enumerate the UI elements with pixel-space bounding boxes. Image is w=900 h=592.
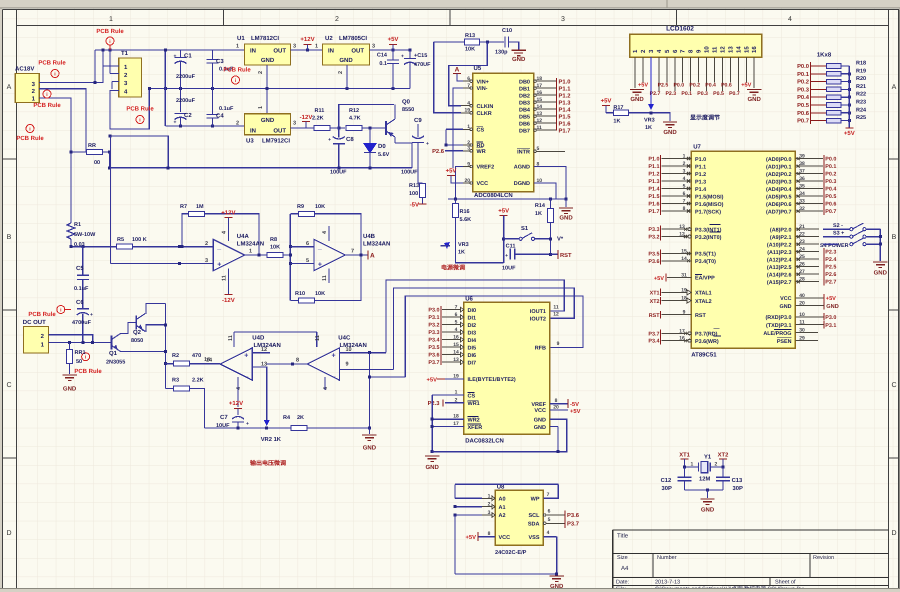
resistor R1 5W-10W — [67, 98, 96, 248]
wires LCD pins down — [635, 57, 754, 104]
svg-text:U7: U7 — [693, 144, 701, 151]
svg-text:16: 16 — [453, 335, 459, 341]
label power adjust chinese — [441, 264, 465, 272]
svg-text:4: 4 — [455, 327, 458, 333]
svg-text:Revision: Revision — [813, 555, 834, 561]
svg-text:19: 19 — [681, 287, 687, 293]
svg-text:22: 22 — [799, 232, 805, 238]
capacitor C4 — [206, 89, 234, 127]
wires U7 left P3 group3 — [648, 248, 691, 264]
IC LCD1602 — [630, 26, 762, 58]
svg-text:P3.6: P3.6 — [428, 353, 439, 359]
svg-text:P2.3: P2.3 — [825, 250, 836, 256]
svg-text:17: 17 — [679, 328, 685, 334]
svg-text:100 K: 100 K — [132, 237, 147, 243]
svg-text:C7: C7 — [220, 414, 228, 421]
ground at VR2 row — [362, 428, 377, 452]
svg-text:P1.5: P1.5 — [559, 114, 572, 120]
svg-text:DC OUT: DC OUT — [23, 319, 46, 326]
capacitor C14 — [377, 50, 399, 89]
svg-text:ALE/PROG: ALE/PROG — [763, 331, 791, 337]
svg-text:OUT: OUT — [351, 48, 364, 55]
svg-text:4.7K: 4.7K — [349, 116, 361, 122]
svg-text:DI6: DI6 — [468, 353, 477, 359]
svg-text:11: 11 — [228, 335, 234, 341]
PCB Rule marker left lower — [16, 125, 44, 143]
svg-text:P3.3(INT1): P3.3(INT1) — [695, 227, 722, 233]
wire left vertical x110 — [110, 136, 112, 263]
wire mid 0V rail — [148, 87, 410, 90]
wire Q1 collector to Q2 base — [121, 323, 137, 334]
ground C10 — [512, 50, 527, 63]
capacitor C8 — [328, 128, 354, 176]
power port +5V at ADC VCC — [446, 168, 463, 184]
svg-text:P2.5: P2.5 — [658, 83, 669, 89]
svg-text:4: 4 — [788, 16, 792, 23]
svg-text:IOUT1: IOUT1 — [530, 309, 546, 315]
net label -5V at VREF — [550, 398, 579, 408]
svg-text:24C02C-E/P: 24C02C-E/P — [495, 549, 527, 556]
svg-text:(AD6)P0.6: (AD6)P0.6 — [766, 202, 791, 208]
net label RST left of U7 — [649, 310, 692, 319]
svg-text:Number: Number — [657, 555, 677, 561]
svg-text:2.2K: 2.2K — [312, 116, 324, 122]
svg-text:6: 6 — [548, 509, 551, 515]
net labels P1.0-P1.7 left of U7 — [648, 155, 660, 215]
svg-text:P2.6: P2.6 — [825, 272, 836, 278]
svg-text:2: 2 — [683, 161, 686, 167]
svg-text:P1.7: P1.7 — [559, 128, 571, 134]
svg-text:P3.5: P3.5 — [648, 251, 659, 257]
svg-text:GND: GND — [339, 57, 353, 64]
svg-text:5.6K: 5.6K — [460, 217, 472, 223]
svg-text:P3.4: P3.4 — [648, 339, 659, 345]
wire U4D pin13 to VR2 — [252, 367, 266, 420]
svg-text:R2: R2 — [172, 353, 179, 359]
svg-text:5: 5 — [683, 184, 686, 190]
wire U4A output — [245, 254, 267, 257]
svg-text:+: + — [505, 253, 508, 259]
svg-text:P2.5: P2.5 — [825, 265, 836, 271]
svg-text:-12V: -12V — [300, 114, 313, 121]
svg-text:(AD3)P0.3: (AD3)P0.3 — [766, 179, 791, 185]
svg-text:PCB Rule: PCB Rule — [16, 135, 44, 142]
svg-text:LM324AN: LM324AN — [254, 342, 281, 349]
svg-text:10K: 10K — [465, 47, 475, 53]
svg-text:PCB Rule: PCB Rule — [28, 311, 56, 318]
svg-text:7: 7 — [351, 249, 354, 255]
resistor R10 10K — [290, 255, 361, 303]
svg-text:P0.6: P0.6 — [721, 83, 732, 89]
svg-text:VR2 1K: VR2 1K — [261, 436, 282, 443]
svg-text:R20: R20 — [856, 76, 866, 82]
svg-text:P1.4: P1.4 — [559, 107, 572, 113]
svg-text:P2.3: P2.3 — [428, 400, 441, 407]
svg-text:8: 8 — [296, 358, 299, 364]
svg-text:+: + — [328, 137, 331, 143]
net label P2.6 at WR — [432, 148, 463, 155]
svg-text:VSS: VSS — [528, 535, 539, 541]
svg-text:P2.7: P2.7 — [825, 280, 836, 286]
svg-text:A: A — [7, 84, 12, 91]
svg-text:P1.7: P1.7 — [648, 209, 659, 215]
connector DC OUT — [23, 319, 49, 353]
ground LCD contrast — [663, 122, 678, 136]
svg-text:VR3: VR3 — [458, 242, 469, 248]
resistor R5 100K — [117, 237, 147, 249]
svg-text:9: 9 — [557, 341, 560, 347]
net labels P0.0-P0.7 left of network — [797, 63, 810, 125]
svg-text:2: 2 — [335, 16, 339, 23]
svg-text:P2.6: P2.6 — [432, 148, 445, 155]
svg-text:U4B: U4B — [363, 233, 376, 240]
PCB Rule marker below AC18V — [33, 90, 61, 109]
power +5V at EA — [654, 273, 691, 283]
svg-text:2.2K: 2.2K — [192, 378, 204, 384]
svg-text:6: 6 — [306, 241, 309, 247]
svg-text:8550: 8550 — [402, 107, 414, 113]
svg-text:00: 00 — [94, 160, 100, 166]
transformer T1 — [119, 50, 142, 97]
svg-text:13: 13 — [453, 357, 459, 363]
wire feedback L1 IOUT1 — [386, 280, 564, 353]
svg-text:PCB Rule: PCB Rule — [223, 67, 251, 74]
wire crystal bottom — [685, 488, 723, 498]
svg-text:R9: R9 — [297, 204, 304, 210]
wire INTR stub — [534, 150, 565, 153]
svg-text:DI1: DI1 — [468, 315, 477, 321]
wire network left bus — [810, 62, 812, 124]
wires DAC DI pins — [428, 305, 463, 367]
svg-text:DI0: DI0 — [468, 308, 477, 314]
net label P3.0 — [795, 312, 836, 321]
svg-text:12: 12 — [679, 232, 685, 238]
svg-text:32: 32 — [799, 206, 805, 212]
svg-text:R17: R17 — [613, 105, 623, 111]
power port +12V top — [300, 36, 314, 50]
svg-text:C4: C4 — [216, 113, 224, 120]
resistor R7 1M — [180, 204, 259, 255]
svg-text:WR1: WR1 — [468, 401, 480, 407]
svg-text:2: 2 — [715, 462, 718, 468]
svg-text:S2 -: S2 - — [833, 223, 843, 229]
svg-text:P0.1: P0.1 — [797, 71, 810, 78]
svg-text:36: 36 — [799, 176, 805, 182]
svg-text:P2.3: P2.3 — [665, 91, 676, 97]
svg-text:D0: D0 — [378, 143, 386, 150]
svg-text:P0.1: P0.1 — [681, 91, 692, 97]
zone tick right C-D — [889, 457, 899, 459]
svg-text:3: 3 — [561, 16, 565, 23]
svg-text:P3.4: P3.4 — [428, 338, 439, 344]
power port +5V top — [388, 36, 399, 50]
zone tick top 2-3 — [449, 10, 451, 26]
svg-text:SDA: SDA — [528, 522, 540, 528]
svg-text:16: 16 — [751, 46, 758, 53]
svg-text:14: 14 — [681, 256, 687, 262]
svg-text:Title: Title — [617, 533, 629, 540]
svg-text:P1.4: P1.4 — [648, 187, 659, 193]
svg-text:P0.2: P0.2 — [797, 79, 809, 86]
svg-text:20: 20 — [553, 405, 559, 411]
svg-text:P0.7: P0.7 — [797, 118, 809, 125]
svg-text:C: C — [6, 382, 11, 389]
svg-text:+5V: +5V — [638, 83, 648, 89]
wire U2 gnd pin — [346, 65, 348, 89]
svg-text:12M: 12M — [699, 476, 710, 483]
svg-text:P3.2(INT0): P3.2(INT0) — [695, 235, 722, 241]
svg-text:P1.1: P1.1 — [695, 164, 706, 170]
svg-text:470UF: 470UF — [414, 62, 431, 68]
svg-text:-12V: -12V — [222, 297, 235, 304]
svg-text:P0.3: P0.3 — [697, 91, 708, 97]
svg-text:C10: C10 — [502, 28, 512, 34]
svg-text:DI2: DI2 — [468, 323, 477, 329]
svg-text:5: 5 — [306, 258, 309, 264]
svg-text:37: 37 — [799, 169, 805, 175]
svg-text:11: 11 — [222, 275, 228, 281]
svg-text:R10: R10 — [295, 291, 305, 297]
capacitor C12 30P — [661, 467, 692, 492]
svg-text:C1: C1 — [184, 53, 192, 60]
svg-text:3: 3 — [488, 510, 491, 516]
svg-text:OUT: OUT — [273, 128, 286, 135]
wire U4B plus input — [290, 262, 314, 264]
svg-text:P1.1: P1.1 — [648, 164, 659, 170]
svg-text:显示度调节: 显示度调节 — [690, 114, 720, 122]
svg-text:25: 25 — [799, 254, 805, 260]
svg-text:U3: U3 — [246, 138, 254, 145]
svg-text:GND: GND — [261, 57, 275, 64]
wire top +rail y50 — [94, 49, 245, 84]
svg-text:P1.5(MOSI): P1.5(MOSI) — [695, 194, 724, 200]
svg-text:R25: R25 — [856, 115, 866, 121]
resistor R17 1K — [613, 105, 628, 125]
svg-text:Sheet of: Sheet of — [775, 580, 796, 586]
svg-text:R12: R12 — [349, 108, 359, 114]
svg-text:11: 11 — [322, 275, 328, 281]
svg-text:CLKIN: CLKIN — [477, 104, 494, 110]
svg-text:GND: GND — [701, 507, 715, 514]
capacitor C1 — [174, 50, 196, 89]
svg-text:P0.2: P0.2 — [825, 172, 836, 178]
svg-text:ADC0804LCN: ADC0804LCN — [474, 192, 513, 199]
svg-text:INTR: INTR — [517, 150, 530, 156]
sheet inner border top line — [17, 25, 889, 27]
PCB Rule marker near C3 — [223, 67, 251, 85]
svg-text:C2: C2 — [184, 112, 192, 119]
svg-text:VIN-: VIN- — [477, 86, 488, 92]
svg-text:+5V: +5V — [826, 296, 836, 302]
svg-text:R8: R8 — [270, 237, 277, 243]
capacitor C7 — [216, 414, 249, 429]
svg-text:DB6: DB6 — [519, 121, 530, 127]
wires U7 right P2 pins with numbers — [795, 224, 819, 283]
svg-text:11: 11 — [553, 305, 559, 311]
svg-text:Size: Size — [617, 555, 628, 561]
svg-text:VCC: VCC — [499, 535, 511, 541]
svg-text:1: 1 — [315, 44, 318, 50]
wire R13 left down to CLKR — [434, 42, 461, 113]
svg-text:DI3: DI3 — [468, 330, 477, 336]
svg-text:_: _ — [243, 371, 248, 378]
svg-text:PSEN: PSEN — [777, 339, 792, 345]
svg-text:7: 7 — [455, 305, 458, 311]
resistors R18-R25 — [811, 61, 868, 123]
svg-text:2200uF: 2200uF — [176, 98, 196, 104]
svg-text:3: 3 — [293, 121, 296, 127]
svg-text:1: 1 — [236, 44, 239, 50]
svg-text:S1: S1 — [521, 225, 529, 232]
svg-text:_: _ — [317, 244, 322, 251]
svg-text:P0.2: P0.2 — [689, 83, 700, 89]
svg-text:27: 27 — [799, 269, 805, 275]
svg-text:P3.1: P3.1 — [825, 323, 836, 329]
wires U7 left P3 group5 — [648, 328, 691, 344]
svg-text:P3.0: P3.0 — [825, 315, 836, 321]
wire R13 junction to CLKIN — [449, 42, 488, 106]
svg-text:RR: RR — [88, 143, 96, 149]
wire DAC IOUT pin numbers — [553, 305, 559, 347]
svg-text:100UF: 100UF — [330, 170, 347, 176]
op-amp U4A LM324AN — [205, 230, 264, 281]
svg-text:A2: A2 — [499, 513, 506, 519]
svg-text:OUT: OUT — [273, 48, 286, 55]
svg-text:PCB Rule: PCB Rule — [38, 60, 66, 67]
wire PSEN stub — [795, 336, 818, 342]
wire R11 junction up to top — [339, 105, 394, 129]
svg-text:R24: R24 — [856, 107, 867, 113]
svg-text:+: + — [246, 421, 249, 427]
wire Q2 emitter — [145, 325, 165, 332]
svg-text:P1.6(MISO): P1.6(MISO) — [695, 202, 724, 208]
svg-text:19: 19 — [453, 374, 459, 380]
ground DAC — [425, 456, 440, 471]
svg-text:-5V: -5V — [570, 402, 579, 408]
label output adjust chinese — [250, 459, 286, 467]
svg-text:A: A — [892, 84, 897, 91]
svg-text:30P: 30P — [733, 485, 743, 492]
svg-text:R11: R11 — [315, 108, 325, 114]
svg-text:VCC: VCC — [534, 408, 546, 414]
power port -5V under R13 — [410, 198, 427, 209]
svg-text:15: 15 — [743, 46, 750, 53]
svg-text:+: + — [90, 312, 93, 318]
svg-text:P3.1: P3.1 — [428, 315, 439, 321]
svg-text:1: 1 — [488, 493, 491, 499]
wire R12 to Q0 base — [362, 127, 386, 130]
svg-text:(AD1)P0.1: (AD1)P0.1 — [766, 164, 791, 170]
power port +5V at R17 — [601, 98, 614, 113]
svg-text:17: 17 — [453, 421, 459, 427]
ground 24C02 — [550, 576, 565, 590]
svg-text:10K: 10K — [315, 291, 325, 297]
svg-text:21: 21 — [799, 224, 805, 230]
svg-text:电源微调: 电源微调 — [441, 264, 465, 272]
svg-text:+: + — [426, 141, 429, 147]
wire VREF2 to bus — [456, 167, 463, 200]
svg-text:31: 31 — [681, 273, 687, 279]
svg-text:C3: C3 — [216, 58, 224, 65]
svg-text:A: A — [455, 67, 460, 74]
svg-text:XT1: XT1 — [679, 453, 690, 459]
svg-text:50: 50 — [76, 359, 82, 365]
wire U2 out — [370, 49, 412, 52]
svg-text:VREF2: VREF2 — [477, 165, 495, 171]
wire U4C pin9 — [340, 368, 394, 370]
power +5V LCD pin2 — [638, 83, 648, 89]
svg-text:AC18V: AC18V — [15, 66, 34, 73]
svg-text:DI7: DI7 — [468, 360, 477, 366]
svg-text:(A10)P2.2: (A10)P2.2 — [767, 242, 792, 248]
svg-text:R14: R14 — [535, 203, 546, 209]
svg-text:11: 11 — [712, 46, 719, 53]
svg-text:P1.4: P1.4 — [695, 187, 706, 193]
svg-text:10K: 10K — [270, 245, 280, 251]
wire right vertical x165 — [164, 303, 167, 388]
window bottom band — [0, 589, 900, 592]
svg-text:(AD0)P0.0: (AD0)P0.0 — [766, 157, 791, 163]
svg-text:A0: A0 — [499, 497, 506, 503]
svg-text:1: 1 — [109, 16, 113, 23]
svg-text:3: 3 — [372, 44, 375, 50]
svg-text:LCD1602: LCD1602 — [666, 26, 694, 33]
wire U1 out — [291, 49, 323, 52]
svg-text:P0.0: P0.0 — [825, 157, 836, 163]
svg-text:(AD2)P0.2: (AD2)P0.2 — [766, 172, 791, 178]
svg-text:A4: A4 — [621, 565, 629, 572]
power port +5V at S1 — [498, 208, 509, 249]
svg-text:U4C: U4C — [338, 335, 351, 342]
svg-text:15: 15 — [453, 342, 459, 348]
svg-text:P0.7: P0.7 — [825, 209, 836, 215]
svg-text:AGND: AGND — [514, 165, 530, 171]
svg-text:10: 10 — [704, 46, 711, 53]
svg-text:0.1uF: 0.1uF — [74, 286, 89, 292]
transistor Q2 8050 — [131, 314, 145, 345]
potentiometer VR2 1K — [261, 420, 282, 443]
svg-text:14: 14 — [206, 358, 213, 364]
svg-text:5: 5 — [455, 320, 458, 326]
resistor R4 2K — [283, 415, 307, 431]
svg-text:Y1: Y1 — [704, 455, 712, 461]
svg-text:P3.0: P3.0 — [428, 308, 439, 314]
window top edge line — [0, 7, 900, 9]
net labels XT1 XT2 — [650, 287, 692, 304]
svg-text:LM7805CI: LM7805CI — [339, 35, 367, 42]
svg-text:输出电压微调: 输出电压微调 — [250, 459, 286, 467]
sheet inner border right line — [888, 10, 890, 592]
wire bottom -rail y126 — [165, 125, 244, 128]
svg-text:VCC: VCC — [780, 296, 791, 302]
svg-text:U4D: U4D — [252, 335, 265, 342]
svg-text:6: 6 — [455, 312, 458, 318]
svg-text:P1.0: P1.0 — [559, 78, 571, 85]
wire GND pin20 — [795, 301, 838, 310]
wire U4D power pin4 — [237, 377, 239, 407]
wire Q1 emitter — [121, 351, 166, 353]
svg-text:P1.1: P1.1 — [559, 86, 572, 92]
svg-text:_: _ — [216, 244, 221, 251]
svg-text:+: + — [401, 54, 404, 60]
sheet outer border — [3, 9, 899, 11]
svg-text:R5: R5 — [117, 237, 124, 243]
svg-text:P0.6: P0.6 — [825, 202, 836, 208]
wire R11-R12 — [330, 127, 345, 130]
svg-text:C: C — [891, 382, 896, 389]
svg-text:GND: GND — [874, 270, 888, 277]
power port +12V U4A — [221, 210, 235, 242]
